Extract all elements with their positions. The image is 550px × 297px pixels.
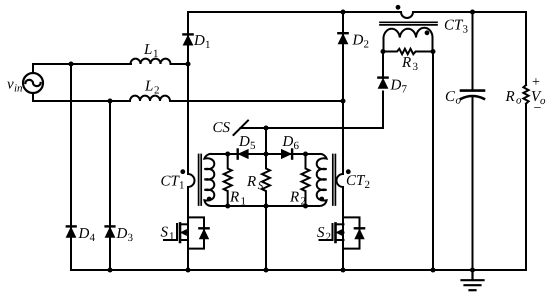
- label L1: [143, 42, 159, 60]
- inductor L1: [131, 59, 171, 64]
- svg-text:CT: CT: [346, 173, 366, 189]
- transformer CT1 primary turn: [188, 174, 195, 187]
- svg-text:1: 1: [179, 180, 185, 192]
- CT1 secondary phase dot: [207, 197, 212, 202]
- wire: CS node down to sense top wire: [265, 128, 267, 154]
- wire: D3 branch: [109, 101, 111, 270]
- wire: left leg x=188 top rail to CT1: [187, 12, 189, 174]
- junction: top rail / Co branch: [470, 10, 475, 15]
- label R2: [289, 190, 306, 208]
- inductor L2: [130, 96, 170, 101]
- resistor R3: [383, 49, 433, 54]
- CT2 secondary phase dot: [319, 197, 324, 202]
- svg-text:L: L: [144, 79, 153, 95]
- label CT2: [346, 173, 370, 191]
- junction: bottom rail / S2 source: [341, 268, 346, 273]
- svg-text:D: D: [78, 226, 90, 242]
- transformer CT2 secondary winding: [317, 154, 327, 206]
- svg-text:2: 2: [365, 179, 371, 191]
- svg-text:1: 1: [241, 196, 247, 208]
- wire: bottom rail: [71, 269, 526, 271]
- junction: v_in- / D3 node: [108, 99, 113, 104]
- label v_in: [7, 77, 23, 95]
- junction: CS line / RS branch: [264, 126, 269, 131]
- svg-text:CS: CS: [213, 120, 231, 136]
- svg-text:D: D: [193, 33, 205, 49]
- MOSFET S1: [164, 217, 209, 248]
- CT1 primary phase dot: [180, 169, 185, 174]
- resistor Ro: [523, 85, 528, 104]
- wire: D2 branch x=343 top rail to CT2: [342, 12, 344, 174]
- label CT3: [444, 18, 469, 36]
- transformer CT2 primary turn: [337, 174, 343, 187]
- label L2: [144, 79, 160, 97]
- svg-text:2: 2: [326, 231, 332, 243]
- resistor RS: [262, 154, 270, 206]
- svg-text:S: S: [258, 180, 264, 192]
- wire: D7 to R3 node: [382, 52, 384, 79]
- MOSFET S2: [320, 217, 365, 248]
- label D1: [193, 33, 211, 51]
- wire: Ro to bottom rail: [525, 104, 527, 270]
- ground: [462, 270, 484, 290]
- label D4: [78, 226, 96, 244]
- label D7: [390, 78, 408, 96]
- svg-text:C: C: [445, 89, 456, 105]
- transformer CT3 secondary winding: [384, 28, 433, 52]
- svg-text:v: v: [7, 77, 14, 93]
- svg-text:o: o: [516, 95, 522, 107]
- label R1: [229, 190, 246, 208]
- junction: L1 / D1 node: [186, 62, 191, 67]
- svg-text:o: o: [456, 95, 462, 107]
- wire: right edge Ro branch top: [525, 12, 527, 85]
- svg-text:S: S: [317, 225, 325, 241]
- junction: R3 left / D7 node: [381, 49, 386, 54]
- diode D7: [378, 76, 387, 78]
- wire: sense network top wire y=154: [212, 153, 319, 155]
- label RS: [246, 174, 264, 192]
- CT2 primary phase dot: [346, 169, 351, 174]
- junction: L2 / D2 node: [341, 99, 346, 104]
- source v_in: [23, 64, 43, 101]
- junction: RS bottom: [264, 204, 269, 209]
- wire: CT1 to S1 drain: [187, 187, 189, 270]
- label S2: [317, 225, 331, 243]
- label S1: [161, 225, 175, 243]
- wire: v_in bottom rail y=101: [33, 100, 130, 102]
- svg-text:D: D: [238, 134, 250, 150]
- transformer CT1 core: [199, 155, 202, 206]
- junction: R2 top: [303, 152, 308, 157]
- wire: CS line to D7 corner: [241, 92, 384, 129]
- CT3 secondary phase dot: [425, 30, 430, 35]
- transformer CT2 core: [333, 155, 336, 206]
- wire: L2 to node at x=343: [170, 100, 343, 102]
- label D6: [282, 134, 300, 152]
- junction: bottom rail / D3: [108, 268, 113, 273]
- junction: R1 top: [225, 152, 230, 157]
- svg-text:2: 2: [154, 85, 160, 97]
- transformer CT3 primary phase dot: [396, 5, 401, 10]
- wire: CT2 to S2 drain: [342, 187, 344, 270]
- svg-text:S: S: [161, 225, 169, 241]
- svg-text:R: R: [246, 174, 256, 190]
- wire: v_in top rail y=64: [33, 63, 131, 65]
- wire: L1 to node at x=188: [171, 63, 189, 65]
- svg-text:CT: CT: [161, 174, 181, 190]
- wire: CT3 right leg to bottom rail: [432, 52, 434, 271]
- diode D2: [338, 32, 347, 34]
- wire: sense bottom wire to bottom rail: [265, 206, 267, 270]
- wire: sense network bottom wire y=204: [212, 205, 319, 207]
- diode D6: [291, 150, 293, 159]
- label R3: [401, 55, 419, 73]
- label D3: [116, 226, 134, 244]
- label D2: [352, 33, 370, 51]
- svg-text:3: 3: [128, 232, 134, 244]
- svg-text:2: 2: [301, 196, 307, 208]
- capacitor Co: [461, 89, 484, 92]
- junction: R1 bottom: [225, 204, 230, 209]
- diode D5: [236, 150, 238, 159]
- svg-text:2: 2: [364, 39, 370, 51]
- junction: R2 bottom: [303, 204, 308, 209]
- svg-text:5: 5: [250, 140, 256, 152]
- svg-text:CT: CT: [444, 18, 464, 34]
- resistor R1: [224, 154, 232, 206]
- junction: R3 right / CT3 leg: [431, 49, 436, 54]
- svg-text:+: +: [532, 75, 540, 90]
- label D5: [238, 134, 256, 152]
- switch CS blade: [234, 121, 249, 136]
- svg-text:3: 3: [463, 24, 469, 36]
- junction: v_in+ / D4 node: [69, 62, 74, 67]
- svg-text:D: D: [390, 78, 402, 94]
- wire: top rail with CT3 primary dip: [188, 12, 526, 18]
- svg-text:D: D: [116, 226, 128, 242]
- svg-text:1: 1: [153, 48, 159, 60]
- label Ro: [505, 89, 523, 107]
- diode D3: [106, 225, 115, 227]
- label CT1: [161, 174, 185, 192]
- junction: D5-D6 center node: [264, 152, 269, 157]
- svg-text:3: 3: [413, 61, 419, 73]
- transformer CT1 secondary winding: [204, 154, 214, 206]
- junction: top rail / D2 branch: [341, 10, 346, 15]
- svg-text:R: R: [401, 55, 411, 71]
- junction: bottom rail / RS leg: [264, 268, 269, 273]
- junction: bottom rail / S1 source: [186, 268, 191, 273]
- svg-text:D: D: [282, 134, 294, 150]
- svg-text:6: 6: [294, 140, 300, 152]
- svg-text:R: R: [229, 190, 239, 206]
- svg-text:−: −: [534, 101, 542, 116]
- label Vo: [531, 89, 546, 107]
- wire: D4 branch: [70, 64, 72, 270]
- svg-text:R: R: [289, 190, 299, 206]
- svg-text:in: in: [14, 83, 23, 95]
- junction: bottom rail / CT3 leg: [431, 268, 436, 273]
- label Co: [445, 89, 462, 107]
- svg-text:4: 4: [90, 232, 96, 244]
- wire: Co branch: [472, 12, 474, 90]
- resistor R2: [302, 154, 310, 206]
- svg-text:1: 1: [205, 39, 211, 51]
- svg-text:7: 7: [402, 84, 408, 96]
- svg-text:R: R: [505, 89, 515, 105]
- diode D4: [67, 225, 76, 227]
- svg-text:L: L: [143, 42, 152, 58]
- junction: bottom rail / Co and ground: [470, 268, 475, 273]
- diode D1: [183, 33, 192, 35]
- svg-text:1: 1: [169, 231, 175, 243]
- svg-text:D: D: [352, 33, 364, 49]
- transformer CT3 core: [380, 22, 437, 25]
